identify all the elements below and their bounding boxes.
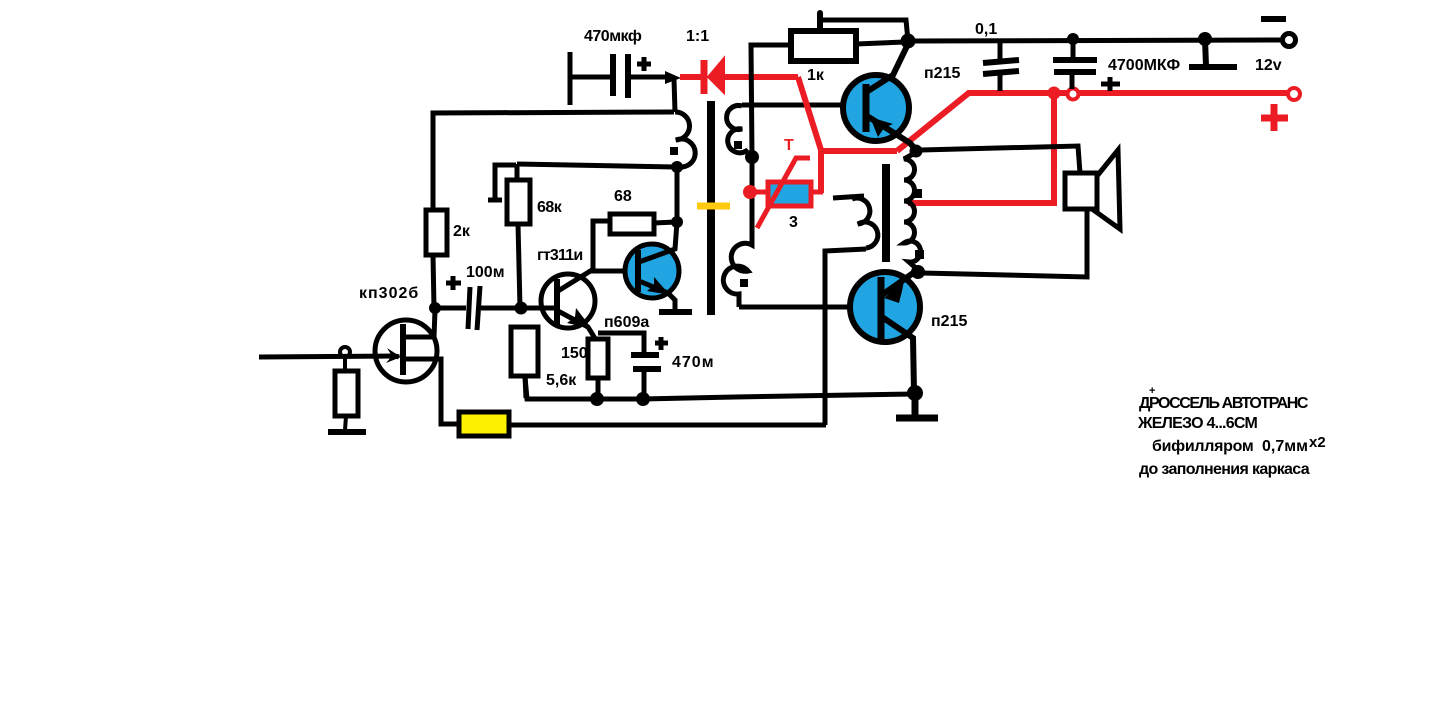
potentiometer T left dot bbox=[743, 185, 757, 199]
wire T2 left winding down bbox=[825, 249, 866, 425]
svg-text:4700МКФ: 4700МКФ bbox=[1108, 57, 1180, 74]
wire Q3 collector bbox=[639, 222, 677, 262]
terminal red ring 4700mkf bbox=[1068, 89, 1079, 100]
diode D1 cathode bar bbox=[701, 60, 708, 94]
transformer T2 right winding bbox=[904, 153, 921, 269]
svg-text:ЖЕЛЕЗО 4...6СМ: ЖЕЛЕЗО 4...6СМ bbox=[1137, 415, 1257, 432]
svg-text:12v: 12v bbox=[1255, 57, 1282, 74]
wire Q1 source bbox=[403, 359, 460, 424]
transformer T1 right winding lower bbox=[723, 230, 752, 307]
wire D1 to corner bbox=[724, 74, 798, 80]
symbol T bar right bbox=[1189, 39, 1237, 67]
wire T1 left winding to p609 collector bbox=[675, 167, 680, 222]
ground Q5 collector bbox=[896, 393, 938, 418]
wire diode junction down to T1 bbox=[674, 79, 675, 112]
transformer T1 core yellow mark bbox=[697, 203, 730, 210]
wire red diagonal down bbox=[798, 77, 821, 150]
node 150 bottom junction bbox=[590, 392, 604, 406]
terminal minus ring bbox=[1283, 34, 1296, 47]
wire T1 right top lead to p215 base bbox=[742, 103, 866, 108]
capacitor C4 0.1 plates bbox=[983, 60, 1019, 63]
transistor Q4 p215 top body bbox=[843, 75, 909, 141]
svg-text:0,7мм: 0,7мм bbox=[1262, 438, 1308, 455]
wire bottom common from Q5 collector bbox=[525, 377, 915, 399]
svg-text:2к: 2к bbox=[453, 223, 471, 240]
node T2 phase dot lower bbox=[915, 250, 924, 259]
transformer T1 right winding upper bbox=[727, 106, 752, 158]
capacitor C4 0.1 top lead bbox=[998, 41, 1003, 60]
capacitor C5 4700mkf plates bbox=[1053, 57, 1097, 63]
node T1 left winding bottom junction bbox=[671, 161, 683, 173]
wire 68k top lead and stub bbox=[488, 164, 517, 200]
node T2 top junction bbox=[910, 145, 923, 158]
transistor Q4 base bar bbox=[863, 84, 870, 132]
wire Q5 collector bbox=[882, 317, 914, 392]
resistor R7 1k bbox=[791, 31, 856, 61]
svg-text:ДРОССЕЛЬ АВТОТРАНС: ДРОССЕЛЬ АВТОТРАНС bbox=[1139, 395, 1309, 412]
node 470m bottom junction bbox=[636, 392, 650, 406]
wire Q5 emitter with arrow bbox=[882, 271, 916, 295]
transistor Q1 kp302b body bbox=[375, 320, 437, 382]
capacitor C1 470mkf terminal bar bbox=[568, 52, 573, 105]
terminal red plus output ring bbox=[1288, 88, 1300, 100]
wire red vertical at pot bbox=[818, 150, 824, 193]
node 68-right junction bbox=[671, 216, 683, 228]
capacitor C5 4700mkf top lead bbox=[1071, 39, 1076, 59]
resistor R6 150 bbox=[588, 339, 608, 378]
transistor Q3 base bar bbox=[635, 250, 641, 292]
wire 68 right lead bbox=[654, 222, 676, 223]
capacitor C3 470m plates bbox=[631, 352, 659, 358]
wire T1 tap vertical bbox=[750, 157, 755, 230]
svg-text:100м: 100м bbox=[466, 264, 505, 281]
wire red diagonal up to rail bbox=[897, 92, 970, 151]
capacitor C1 plus bbox=[637, 57, 651, 71]
diode D1 triangle bbox=[708, 58, 724, 93]
transistor Q1 channel bar bbox=[400, 324, 406, 375]
capacitor C2 100m plus bbox=[446, 276, 461, 290]
svg-text:5,6к: 5,6к bbox=[546, 372, 577, 389]
wire Q1 drain bbox=[403, 310, 435, 337]
potentiometer T body bbox=[768, 182, 811, 206]
wire 68k top to T1 winding bbox=[517, 164, 676, 167]
node T1 lower winding phase dot bbox=[740, 279, 748, 287]
svg-text:T: T bbox=[784, 137, 794, 154]
wire Q4 collector bbox=[868, 44, 908, 91]
speaker LS1 cone bbox=[1092, 150, 1120, 229]
wire yellow link to right riser bbox=[509, 423, 826, 428]
svg-text:68: 68 bbox=[614, 188, 632, 205]
wire Q2 emitter with arrow bbox=[558, 311, 596, 340]
transistor Q1 gate arrow bbox=[396, 356, 399, 357]
capacitor C2 100m plates bbox=[468, 287, 470, 329]
wire R-input top lead bbox=[343, 357, 347, 371]
node A junction 2k/100m/drain bbox=[429, 302, 441, 314]
svg-text:гт311и: гт311и bbox=[537, 247, 582, 264]
capacitor C5 bottom lead bbox=[1070, 72, 1075, 89]
transformer T1 left winding bbox=[675, 112, 695, 167]
svg-text:1:1: 1:1 bbox=[686, 28, 709, 45]
wire speaker bottom bbox=[922, 209, 1087, 277]
node diode junction arrow bbox=[665, 71, 681, 84]
symbol red plus bbox=[1261, 104, 1288, 131]
node T1 right winding phase dot bbox=[734, 141, 742, 149]
svg-text:до заполнения каркаса: до заполнения каркаса bbox=[1139, 461, 1310, 478]
wire C1 right lead bbox=[628, 75, 668, 80]
wire 1k right lead bbox=[856, 42, 905, 44]
wire 2k top to T1 bbox=[433, 112, 674, 210]
transformer T1 core bbox=[707, 101, 715, 315]
wire 150 bottom lead bbox=[596, 378, 601, 398]
transistor Q5 p215 bottom body bbox=[850, 272, 920, 342]
wire input line bbox=[259, 356, 396, 357]
svg-text:470м: 470м bbox=[672, 354, 715, 371]
node red junction dot bbox=[1048, 87, 1061, 100]
node B junction 100m/68k/5.6k/base bbox=[515, 302, 528, 315]
resistor R5 68 bbox=[610, 214, 654, 234]
node rail 4700 junction bbox=[1067, 33, 1079, 45]
node T2 bottom junction bbox=[911, 265, 925, 279]
svg-text:3: 3 bbox=[789, 214, 798, 231]
transformer T2 left winding bbox=[852, 198, 878, 248]
wire 100m left lead bbox=[435, 306, 466, 311]
svg-text:п215: п215 bbox=[924, 65, 960, 82]
wire 1k left lead to T1 tap bbox=[751, 45, 791, 157]
svg-text:х2: х2 bbox=[1309, 434, 1326, 451]
capacitor C3 470m plus bbox=[655, 337, 668, 350]
transistor Q2 base bar bbox=[554, 279, 560, 326]
svg-text:470мкф: 470мкф bbox=[584, 28, 642, 45]
wire Q4 emitter with arrow bbox=[867, 116, 916, 150]
diode D1 anode lead bbox=[680, 74, 702, 80]
node Q5 collector junction bbox=[907, 385, 923, 401]
wire 100m right lead bbox=[481, 306, 519, 311]
ground Q3 emitter bar bbox=[659, 309, 692, 315]
speaker LS1 box bbox=[1065, 173, 1097, 209]
wire red positive rail bbox=[968, 90, 1287, 96]
wire 68k bottom lead bbox=[518, 224, 520, 308]
wire red down to T2 tap bbox=[908, 93, 1054, 203]
node rail right junction bbox=[1198, 32, 1212, 46]
capacitor C4 0.1 bottom lead bbox=[998, 74, 1003, 91]
wire 2k bottom lead bbox=[433, 255, 434, 308]
transformer T2 left winding top lead bbox=[833, 196, 864, 198]
transistor Q2 gt311i body bbox=[541, 274, 595, 328]
node T1 center tap junction bbox=[745, 150, 759, 164]
resistor R4 5.6k bbox=[511, 327, 538, 376]
node input knot bbox=[340, 347, 350, 357]
svg-text:+: + bbox=[1149, 385, 1155, 397]
wire speaker top bbox=[921, 146, 1080, 173]
wire 5.6k bottom lead bbox=[525, 376, 526, 398]
potentiometer T wiper bbox=[757, 158, 810, 228]
capacitor C1 470mkf plates bbox=[610, 54, 616, 96]
wire red horizontal to diagonal bbox=[821, 148, 897, 154]
capacitor C5 plus bbox=[1101, 77, 1120, 91]
transformer T2 core bbox=[882, 164, 890, 262]
wire Q3 emitter with arrow bbox=[639, 281, 675, 311]
node T2 phase dot upper bbox=[913, 189, 922, 198]
transistor Q3 p609a body bbox=[625, 244, 679, 298]
svg-text:68к: 68к bbox=[537, 199, 563, 216]
resistor R2 2k bbox=[426, 210, 447, 255]
svg-text:1к: 1к bbox=[807, 67, 825, 84]
svg-text:кп302б: кп302б bbox=[359, 285, 419, 302]
wire C1 left lead bbox=[570, 75, 611, 80]
wire p215 bottom base bbox=[739, 305, 880, 310]
svg-text:п609а: п609а bbox=[604, 314, 649, 331]
resistor R3 68k bbox=[507, 180, 530, 224]
wire 1k top stub bbox=[817, 13, 823, 31]
fuse yellow link bbox=[459, 412, 509, 436]
node collector junction bbox=[901, 34, 916, 49]
svg-text:150: 150 bbox=[561, 345, 588, 362]
node T1 left winding phase dot bbox=[670, 147, 678, 155]
wire pot left link bbox=[750, 190, 768, 195]
resistor R-input bbox=[335, 371, 358, 416]
svg-text:бифилляром: бифилляром bbox=[1152, 438, 1253, 455]
wire 1k top loop to rail bbox=[822, 20, 908, 41]
wire 150 top to 470m bbox=[598, 333, 644, 353]
wire pot right link bbox=[810, 190, 823, 195]
svg-text:0,1: 0,1 bbox=[975, 21, 997, 38]
wire R-input bottom lead bbox=[345, 416, 346, 430]
wire Q2 collector bbox=[558, 270, 592, 291]
wire negative rail bbox=[908, 40, 1283, 41]
ground input bbox=[328, 429, 366, 435]
transistor Q5 base bar bbox=[878, 277, 885, 342]
wire Q2 base lead bbox=[521, 306, 556, 311]
wire 68 left lead down to node bbox=[591, 221, 638, 271]
wire 470m bottom lead bbox=[642, 369, 647, 398]
svg-text:п215: п215 bbox=[931, 313, 967, 330]
symbol minus sign bbox=[1261, 16, 1286, 22]
